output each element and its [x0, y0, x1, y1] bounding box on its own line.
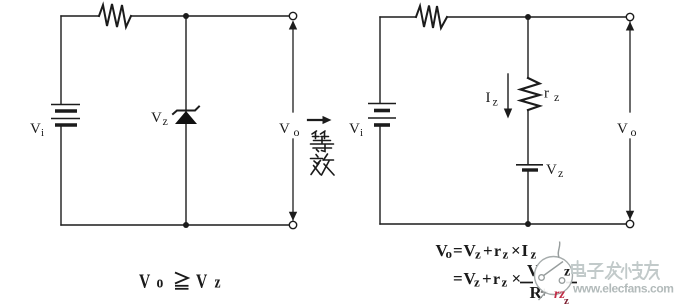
terminal top-right open circle (right circuit) — [626, 13, 633, 20]
zener diode Vz (left circuit) — [173, 107, 199, 125]
label Iz (right circuit current) — [486, 90, 498, 109]
symbol greater-or-equal (≧) — [175, 273, 189, 289]
svg-text:r: r — [493, 271, 500, 288]
svg-text:o: o — [157, 273, 164, 292]
svg-text:o: o — [631, 125, 637, 139]
fraction bar — [520, 282, 577, 284]
watermark text dianzi fashaoyou (电子发烧友) — [572, 261, 659, 279]
友 — [645, 264, 658, 266]
wire left vertical upper (left circuit) — [60, 16, 62, 104]
svg-text:+: + — [482, 269, 492, 288]
formula line 1: Vo=Vz+rz×Iz — [436, 241, 537, 262]
svg-text:z: z — [564, 295, 569, 305]
chinese text deng (等) — [311, 131, 334, 152]
arrowhead down at output (left circuit) — [289, 212, 297, 221]
svg-text:z: z — [558, 166, 563, 180]
resistor rz (right circuit, vertical) — [521, 78, 540, 110]
wire bottom horizontal (left circuit) — [61, 224, 290, 226]
svg-text:r: r — [544, 86, 549, 102]
svg-text:o: o — [446, 246, 453, 261]
svg-text:z: z — [502, 275, 508, 290]
Iz current arrow (right circuit) — [504, 74, 512, 119]
label Vo (right circuit output) — [617, 121, 637, 139]
terminal bottom-right open circle (left circuit) — [289, 221, 296, 228]
equivalence arrow between circuits — [308, 116, 332, 124]
wire middle branch below Vz (right circuit) — [527, 172, 529, 224]
fraction numerator Vi-Vz (partly hidden by watermark) — [527, 261, 540, 280]
svg-text:V: V — [617, 121, 628, 137]
battery Vz (right circuit) — [516, 165, 543, 170]
label rz (right circuit resistor) — [544, 86, 559, 105]
arrowhead down at output (right circuit) — [626, 211, 634, 220]
Vo measurement arrow line upper (right circuit) — [629, 22, 631, 112]
resistor R (left circuit, top) — [99, 4, 131, 27]
wire middle branch between rz and Vz (right circuit) — [527, 110, 529, 164]
svg-text:V: V — [546, 162, 557, 178]
formula line 2: =Vz+rz× fraction — [453, 269, 521, 290]
label Vz (left circuit zener) — [151, 110, 168, 128]
node B (left circuit bottom junction) — [183, 222, 189, 228]
svg-text:i: i — [41, 127, 44, 139]
svg-text:V: V — [349, 121, 360, 137]
svg-text:z: z — [474, 275, 480, 290]
battery Vi (left circuit) — [51, 105, 80, 126]
wire node to output terminal (left circuit) — [186, 15, 290, 17]
wire top horizontal to node (right circuit) — [447, 16, 528, 18]
node C (right circuit top junction) — [525, 14, 531, 20]
svg-text:i: i — [360, 127, 363, 139]
watermark red mark rz (logo accent) — [554, 287, 569, 305]
terminal bottom-right open circle (right circuit) — [626, 220, 633, 227]
wire top horizontal to node (left circuit) — [131, 15, 186, 17]
Vo measurement arrow line lower (right circuit) — [629, 139, 631, 219]
svg-text:V: V — [139, 270, 150, 292]
svg-text:z: z — [531, 247, 537, 262]
svg-text:z: z — [554, 90, 559, 104]
wire left vertical lower (left circuit) — [60, 127, 62, 226]
resistor R (right circuit, top) — [416, 6, 447, 29]
node D (right circuit bottom junction) — [525, 221, 531, 227]
wire top-left horizontal segment (right circuit) — [380, 16, 416, 18]
Vo measurement arrow line lower (left circuit) — [292, 139, 294, 220]
svg-text:V: V — [151, 110, 162, 126]
fraction denominator R+rz — [530, 283, 549, 302]
watermark logo circle (elecfans) — [535, 242, 573, 301]
Vo measurement arrow line upper (left circuit) — [292, 22, 294, 112]
wire node to output terminal (right circuit) — [528, 16, 627, 18]
svg-text:z: z — [163, 114, 168, 128]
svg-text:=: = — [453, 269, 463, 288]
svg-text:I: I — [486, 90, 491, 106]
arrowhead up at output (right circuit) — [626, 22, 634, 31]
svg-text:+: + — [483, 241, 493, 260]
子 — [590, 264, 601, 269]
svg-text:I: I — [522, 241, 529, 260]
svg-text:V: V — [30, 121, 41, 137]
烧 — [625, 264, 627, 278]
svg-text:o: o — [294, 125, 300, 139]
node A (left circuit top junction) — [183, 13, 189, 19]
label Vi (left circuit) — [30, 121, 44, 139]
label Vi (right circuit) — [349, 121, 363, 139]
svg-text:r: r — [494, 243, 501, 260]
svg-text:×: × — [511, 241, 521, 260]
arrowhead up at output (left circuit) — [289, 21, 297, 30]
wire middle branch vertical (left circuit) — [185, 16, 187, 225]
svg-text:z: z — [215, 273, 221, 292]
svg-text:V: V — [196, 270, 207, 292]
svg-text:=: = — [453, 241, 463, 260]
svg-text:z: z — [503, 247, 509, 262]
equation Vo >= Vz (below left circuit) — [139, 270, 221, 292]
wire left vertical upper (right circuit) — [379, 17, 381, 103]
svg-text:z: z — [475, 247, 481, 262]
svg-text:z: z — [564, 265, 570, 280]
svg-text:www.elecfans.com: www.elecfans.com — [572, 282, 674, 296]
电 — [572, 265, 583, 273]
svg-text:V: V — [279, 121, 290, 137]
label Vz (right circuit battery) — [546, 162, 563, 180]
label Vo (left circuit output) — [279, 121, 300, 139]
wire bottom horizontal (right circuit) — [380, 223, 627, 225]
wire middle branch above rz (right circuit) — [527, 17, 529, 78]
wire left vertical lower (right circuit) — [379, 127, 381, 225]
terminal top-right open circle (left circuit) — [289, 12, 296, 19]
svg-text:×: × — [512, 269, 522, 288]
svg-text:z: z — [493, 95, 498, 109]
chinese text xiao (效) — [311, 154, 335, 175]
battery Vi (right circuit) — [368, 104, 396, 126]
发 — [608, 266, 621, 268]
wire top-left horizontal segment (left circuit) — [61, 15, 99, 17]
